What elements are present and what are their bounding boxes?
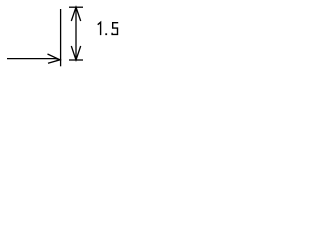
top arrowhead — [71, 7, 80, 21]
leader line — [7, 59, 60, 60]
vertical edge line — [60, 9, 62, 66]
dimension line — [75, 7, 77, 60]
digit 5 — [112, 23, 118, 35]
digit 1 — [98, 22, 101, 35]
top extension cap — [69, 6, 83, 8]
bottom arrowhead — [71, 46, 80, 60]
leader arrowhead — [48, 54, 61, 63]
decimal point — [105, 33, 107, 35]
bottom extension cap — [69, 59, 83, 61]
